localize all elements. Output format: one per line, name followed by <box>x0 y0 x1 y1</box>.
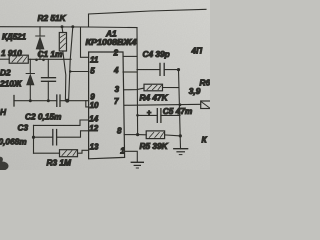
node at 36.5 on row <box>35 59 38 62</box>
wire upper right with jog <box>89 9 207 27</box>
wire fork to pin 10 <box>86 101 89 107</box>
paper background <box>0 0 210 170</box>
wire pin 7 to R6 <box>124 104 201 105</box>
node pin7 bus crossing <box>179 103 182 106</box>
node pin 8 <box>136 133 139 136</box>
wire left bus from rail node down <box>69 27 73 101</box>
resistor R1 <box>0 55 28 63</box>
node VD2 bottom <box>29 99 32 102</box>
wire pin 4 stub <box>123 71 137 73</box>
capacitor C1 <box>42 59 56 100</box>
wire pin 11 drop from rail <box>81 27 89 57</box>
wire loop top to pin 14 <box>34 120 89 125</box>
node main bottom row <box>65 99 69 103</box>
wire bottom row to C2 <box>14 100 57 102</box>
diode VD2 <box>26 59 34 100</box>
node on rail at left bus <box>71 25 74 28</box>
node on rail at R2 <box>61 25 64 28</box>
wire pin 8 stub <box>124 134 137 136</box>
input terminal bar <box>13 96 15 107</box>
resistor R3 <box>60 150 89 157</box>
wire pin 1 to ground <box>125 151 138 162</box>
wire pin 2 stub <box>123 55 137 57</box>
wire pin 5 stub <box>70 71 89 73</box>
node C5 left junction <box>136 114 139 117</box>
wire row under VD1 <box>28 58 71 60</box>
node C1 bottom <box>47 99 50 102</box>
op IC A1 box <box>89 52 125 159</box>
capacitor C5 <box>137 109 180 123</box>
resistor R4 <box>124 84 179 91</box>
capacitor C3 <box>34 130 89 145</box>
bottom left ink smudge <box>0 157 9 171</box>
resistor R2 <box>59 27 66 101</box>
wire right bus from rail down to pin 8 node <box>136 28 139 135</box>
wire right outer bus <box>179 70 181 149</box>
node C4 right <box>177 68 180 71</box>
wire loop bottom <box>34 152 60 154</box>
node at 43.5 on row <box>42 59 45 62</box>
grain overlay <box>0 0 210 170</box>
resistor R5 <box>138 131 181 139</box>
ground right <box>174 149 188 155</box>
node R5 right <box>179 134 182 137</box>
node C3 tap <box>32 136 35 139</box>
ground left <box>131 162 143 168</box>
capacitor C4 <box>137 63 179 75</box>
wire top rail <box>0 26 137 29</box>
node pin5 junction <box>69 70 71 72</box>
capacitor C2 <box>57 95 89 106</box>
C3 R3 loop left vertical <box>33 125 35 153</box>
resistor R6 partial <box>201 101 211 109</box>
diode VD1 <box>36 27 45 60</box>
